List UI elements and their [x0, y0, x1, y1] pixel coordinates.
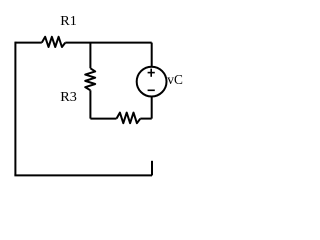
wire middle horizontal left segment	[90, 118, 116, 120]
wire bottom-right stub	[151, 161, 153, 176]
svg-text:R3: R3	[60, 90, 77, 105]
wire middle horizontal right segment	[140, 118, 151, 120]
wire bottom horizontal	[14, 174, 152, 176]
svg-text:R1: R1	[60, 14, 77, 29]
resistor R3	[85, 68, 95, 90]
resistor R1	[42, 37, 66, 47]
resistor R2 (unlabeled, bottom)	[117, 113, 141, 124]
wire source bottom vertical	[151, 97, 153, 119]
voltage source vC	[137, 67, 167, 97]
wire R3 branch top vertical	[89, 43, 91, 69]
minus sign	[148, 89, 155, 91]
wire R3 branch bottom vertical	[89, 90, 91, 118]
plus sign	[148, 69, 155, 77]
wire top horizontal to right	[65, 42, 151, 44]
wire right vertical to source top	[151, 43, 153, 67]
svg-text:vC: vC	[167, 73, 183, 88]
wire top-left horizontal	[15, 42, 41, 44]
wire left vertical	[14, 42, 16, 176]
